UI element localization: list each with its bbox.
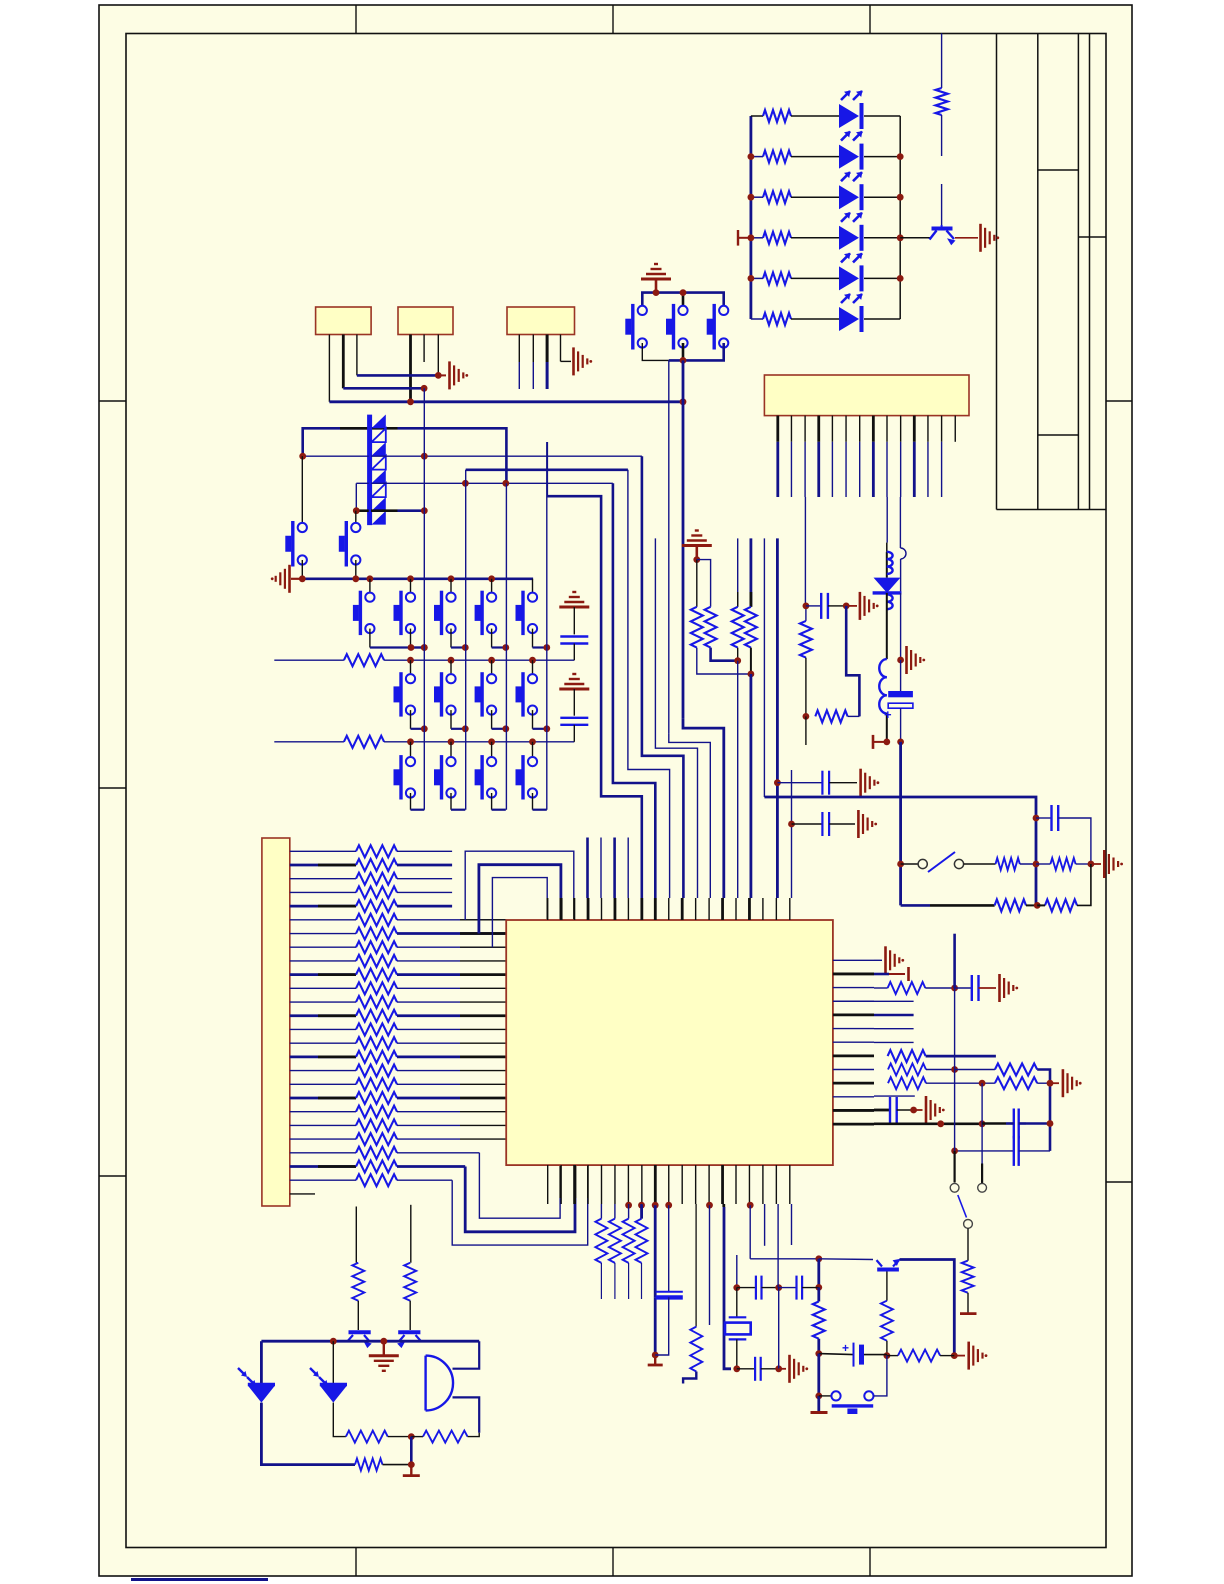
wire J1 pins [328,335,330,402]
wire bus row 402 [329,400,683,403]
junction [488,575,495,582]
junction [693,556,700,563]
junction [748,275,755,282]
junction [774,779,781,786]
junction [299,575,306,582]
ground G3 [979,224,982,252]
junction [462,644,469,651]
wire 982 vertical [981,1083,983,1163]
LED D1 [839,104,859,128]
junction [543,725,550,732]
power port T2 [654,1355,656,1365]
resistor R 751 [750,538,753,606]
wire 764 to bus797 [763,538,765,797]
pushbutton key r3c3 [491,742,493,762]
ground G13 [967,1342,970,1370]
junction [680,398,687,405]
connector J1 [316,307,372,335]
wire bank row 24 loop [397,1165,465,1168]
resistor LED row 3 [751,196,763,198]
wire J4 pin3 long [804,497,806,606]
ground T3 [817,1396,820,1412]
wire button drop thick [682,360,685,718]
junction [897,657,904,664]
connector J3 [507,307,575,335]
junction [884,1352,891,1359]
junction [353,507,360,514]
revision table top right [996,34,998,510]
resistor bank row 9 [290,960,356,962]
wire 954 up [953,934,956,988]
resistor bank row 10 [290,973,356,976]
earth ground E2 [682,544,712,547]
wire to ground [954,1355,965,1357]
junction [408,1433,415,1440]
IC U1 [506,920,833,1165]
wire button thick drop [683,718,724,898]
resistor R 603 [600,1204,602,1219]
ground G11 [925,1096,928,1124]
wire J4 pin 10 [900,416,902,442]
wire button thin drop [669,733,711,898]
junction [421,507,428,514]
junction [448,657,455,664]
wire button rail bottom [642,343,669,360]
wire 724 rail xtal [722,1204,725,1207]
cap C 821 [806,605,821,607]
resistor R 1063 [1036,863,1050,865]
ground G9 [998,974,1001,1002]
inductor L2 [887,594,893,601]
wire J4 pin10 long [899,497,901,548]
wire right pin1 gnd [874,959,882,961]
wire to ground [779,1368,786,1370]
resistor bank row 16 [290,1055,356,1058]
ground G1 [448,361,451,389]
wire J4 pin 3 [804,416,806,442]
switch SW1 [897,861,904,868]
power port [873,741,887,743]
inductor L3 [879,659,887,677]
pushbutton key r2c1 [410,660,412,679]
resistor bank row 21 [290,1124,356,1126]
wire bus 797 [764,797,1036,905]
junction [734,657,741,664]
wire J4 pin 6 [845,416,847,442]
wire bank row 25 loop [397,1179,452,1181]
wire 887 resistor row [887,1355,898,1357]
earth ground E3 [369,1354,399,1357]
resistor LED row 6 [751,318,763,320]
wire 887 down [886,593,888,659]
wire 655 rail [654,1205,657,1297]
ground G5 [859,592,862,620]
wire Q3 base line [355,1207,357,1263]
pushbutton key r2c3 [491,660,493,679]
junction [951,1148,958,1155]
wire right pins 4-8 [874,1000,914,1002]
wire bank row 23 loop [397,1152,479,1154]
wire row 483 [356,482,368,484]
resistor bank row 7 [290,933,356,935]
wire gate right [453,1341,480,1369]
resistor R 819 [817,1287,820,1301]
junction [488,738,495,745]
wire to ground [1091,863,1101,865]
ground G6 [905,646,908,674]
wire key bottom [491,793,493,810]
pushbutton key r1c4 [491,579,493,597]
wire D16 down [333,1403,346,1437]
resistor R Q4 [404,1263,416,1301]
junction [529,738,536,745]
pushbutton key r3c2 [450,742,452,762]
wire J4 pin 5 [831,416,833,442]
resistor bank row 14 [290,1028,356,1030]
resistor bank row 5 [290,905,356,908]
wire key bottom [450,793,452,810]
inductor L1 [886,552,888,578]
junction [1034,902,1041,909]
resistor LED row 2 [751,156,763,158]
junction [299,453,306,460]
wire 777 drop [776,538,779,898]
wire 805 chain [805,606,807,621]
IC bottom pin stubs [547,1165,549,1204]
pushbutton key r1c5 [532,579,534,597]
junction [448,575,455,582]
wire 641 rail [640,1205,643,1218]
wire caps row to rail [779,1287,797,1289]
wire key bottom [450,629,452,648]
resistor bank row 22 [290,1138,356,1140]
wire keypad row1 bus [302,577,533,580]
junction [408,644,415,651]
wire bank row 8 loop [397,946,506,948]
wire Q2 emitter right [900,1260,955,1356]
power port right pin2 [874,973,889,976]
ground G8 [884,946,887,974]
junction [407,738,414,745]
cap C 825b [792,823,823,825]
resistor bank row 23 [290,1152,356,1154]
junction [421,644,428,651]
wire J4 pin 9 [886,416,888,442]
junction [680,357,687,364]
junction [733,1365,740,1372]
wire J4 pin 7 [859,416,861,442]
cap C 1055 [1036,817,1052,819]
resistor LED row 5 [751,277,763,279]
LED D5 [839,266,859,290]
junction [421,725,428,732]
junction [910,1107,917,1114]
wire LED common [900,237,931,239]
diode stack D7 [367,415,372,525]
ground G15 [857,810,860,838]
wire to ground [846,605,857,607]
junction [407,657,414,664]
wire bridge 483 [613,483,655,898]
resistor bank row 17 [290,1070,356,1072]
wire Q4 base line [410,1205,412,1263]
resistor R 1010 [995,899,1026,911]
resistor bank row 26 [290,1193,315,1195]
junction [748,234,755,241]
inner border frame [126,34,1106,1548]
junction [1047,1080,1054,1087]
pushbutton S4 [301,456,303,527]
pushbutton S3 [713,304,716,350]
pushbutton key r1c1 [369,579,371,597]
cap C xtal A [982,1122,1006,1125]
resistor R pin3 [874,987,888,989]
resistor bank row 8 [290,946,356,948]
wire 846 branch [846,606,859,717]
resistor bank row 4 [290,891,356,893]
junction [488,657,495,664]
junction [843,603,850,610]
junction [815,1284,822,1291]
junction [680,289,687,296]
resistor R ir1 [346,1431,388,1443]
wire right pin 1096 [874,1095,915,1097]
resistor bank row 20 [290,1111,356,1113]
wire J2 pins [409,335,412,402]
wire key bottom [532,793,534,810]
pushbutton key r2c2 [450,660,452,679]
earth ground E1 [641,278,671,281]
wire J4 pin 2 [790,416,792,442]
wire J4 pin 12 [927,416,929,442]
pushbutton S21 [819,1395,832,1397]
wire 982 stub [981,1164,983,1184]
wire to ground [901,659,904,661]
wire LED right rail [899,116,901,319]
wire key bottom [491,629,493,648]
wire J4 pin 13 [941,416,943,442]
wire right pin 1124 [874,1123,982,1126]
resistor R 697 [696,560,698,607]
resistor R 820 [815,710,847,722]
pushbutton S2 [672,304,675,350]
wire key bottom [410,710,412,729]
junction [330,1338,337,1345]
IC top pin stubs [547,898,549,920]
junction [951,1352,958,1359]
junction [653,289,660,296]
gate U2 [426,1356,453,1411]
wire net row 388 [343,387,424,390]
ground G7 [1103,850,1106,878]
resistor bank row 1 [290,850,356,852]
photodiode D16 [332,1341,334,1384]
wire key bottom [532,710,534,729]
cap C xt3 [795,1276,797,1300]
pushbutton S1 [631,304,634,350]
resistor R pin9 row [888,1064,926,1076]
junction [775,1365,782,1372]
cap C row3 gnd [559,688,589,691]
wire bank row 6 loop [397,919,506,921]
junction [502,480,509,487]
wire 778 vertical [777,1204,779,1288]
resistor bank row 13 [290,1014,356,1017]
cap C pin3 [955,987,972,989]
wire bridge 496 [546,442,548,496]
resistor R 616 [614,1204,616,1219]
resistor R 806 [800,621,812,658]
resistor R 630 [628,1204,630,1219]
LED D3 [839,185,859,209]
cap C pin 1110 [874,1109,890,1112]
junction [815,1255,822,1262]
junction [462,725,469,732]
crystal Y1 [736,1255,738,1288]
wire bridge 470 [466,468,628,471]
pushbutton key r3c1 [410,742,412,762]
junction [979,1120,986,1127]
junction [421,453,428,460]
resistor bank row 11 [290,987,356,989]
wire row 428 right [371,427,398,430]
wire key bottom [369,629,371,648]
wire rail 819 lower [817,1354,820,1396]
junction [529,657,536,664]
pushbutton S5 [355,511,357,528]
junction [951,985,958,992]
svg-text:+: + [842,1341,849,1355]
resistor LED row 4 [751,237,763,239]
wire Q1 emitter to ground [955,237,978,239]
junction [448,738,455,745]
wire drop 655 [655,538,697,898]
junction [775,1284,782,1291]
resistor keypad row 2 [274,659,344,661]
resistor R 642 [640,1204,642,1219]
wire 791 stub2 [791,1204,793,1245]
junction [815,1350,822,1357]
transistor Q4 [398,1330,420,1334]
pushbutton key r3c4 [532,742,534,762]
wire D15 bottom loop [261,1403,355,1465]
svg-text:+: + [884,707,892,722]
junction row 1205 [625,1202,632,1209]
wire J3 pins [518,335,520,363]
diode D13 [874,578,901,593]
transistor Q1 [932,227,953,231]
resistor R 710 [697,560,711,607]
junction [1033,815,1040,822]
resistor R 738 [737,538,739,606]
resistor bank row 12 [290,1001,356,1003]
cap C xt1 [737,1287,756,1289]
wire button right up [874,1356,887,1396]
wire LED left rail [750,116,753,319]
transistor Q2 [877,1268,899,1272]
transistor Q3 [349,1330,371,1334]
ground G12 [788,1355,791,1383]
junction [748,671,755,678]
junction [543,644,550,651]
junction [407,575,414,582]
wire bank row 7 loop [397,932,506,935]
connector J2 [398,307,453,335]
wire row 511 [356,509,368,512]
wire key bottom [410,629,412,648]
wire J4 pin 8 [872,416,875,442]
pushbutton key r1c2 [410,579,412,597]
wire keypad columns [423,388,425,809]
bottom margin mark [131,1578,268,1581]
wire S4 S5 bottoms [301,560,303,579]
wire J4 pin 11 [913,416,916,442]
wire emitter bus 1341 [261,1340,479,1343]
border zone ticks [355,5,357,34]
IC right pin stubs [833,959,874,961]
resistor R selector [967,1228,969,1260]
resistor bank row 6 [290,919,356,921]
wire IC pin uppers [586,838,589,899]
junction [897,275,904,282]
resistor bank row 18 [290,1083,356,1085]
junction [1047,1120,1054,1127]
ground G10 [1062,1069,1065,1097]
LED D4 [839,226,859,250]
junction [462,480,469,487]
cap C row2 gnd [559,606,589,609]
wire row 428 left [303,428,369,456]
junction [421,644,428,651]
wire row 905 [901,904,930,907]
wire 791 stub [791,770,793,898]
wire net row 375 [357,374,438,377]
wire row 456 [303,455,369,457]
wire 411 link [410,1437,413,1465]
resistor bank row 24 [290,1165,356,1168]
resistor LED row 1 [751,115,763,117]
junction [883,739,890,746]
resistor R 920 [898,1350,940,1362]
wire key bottom [532,629,534,648]
LED D6 [839,307,859,331]
ground G4 [288,565,291,593]
resistor bank row 3 [290,878,356,880]
junction [408,1461,415,1468]
resistor bank row 2 [290,864,356,867]
resistor R pin10 row [888,1077,926,1089]
resistor R pin8 [926,1055,996,1058]
wire 696 res [695,1204,697,1327]
wire J4 pin9 long [886,497,888,543]
junction [748,153,755,160]
pushbutton key r2c4 [532,660,534,679]
junction [421,385,428,392]
wire bridge 456 drop [642,456,684,898]
capacitor C+ 901 [900,660,902,693]
junction [435,372,442,379]
wire 900 mid [900,593,902,660]
electrolytic C2 [819,1354,854,1355]
connector J4 [764,375,969,416]
resistor bank row 15 [290,1042,356,1044]
junction [1033,861,1040,868]
cap C xt2 [737,1368,755,1370]
power tick [737,230,739,246]
wire 901 down to switch [899,742,902,906]
wire J4 pin 4 [817,416,820,442]
resistor R 1061 [1045,899,1077,911]
